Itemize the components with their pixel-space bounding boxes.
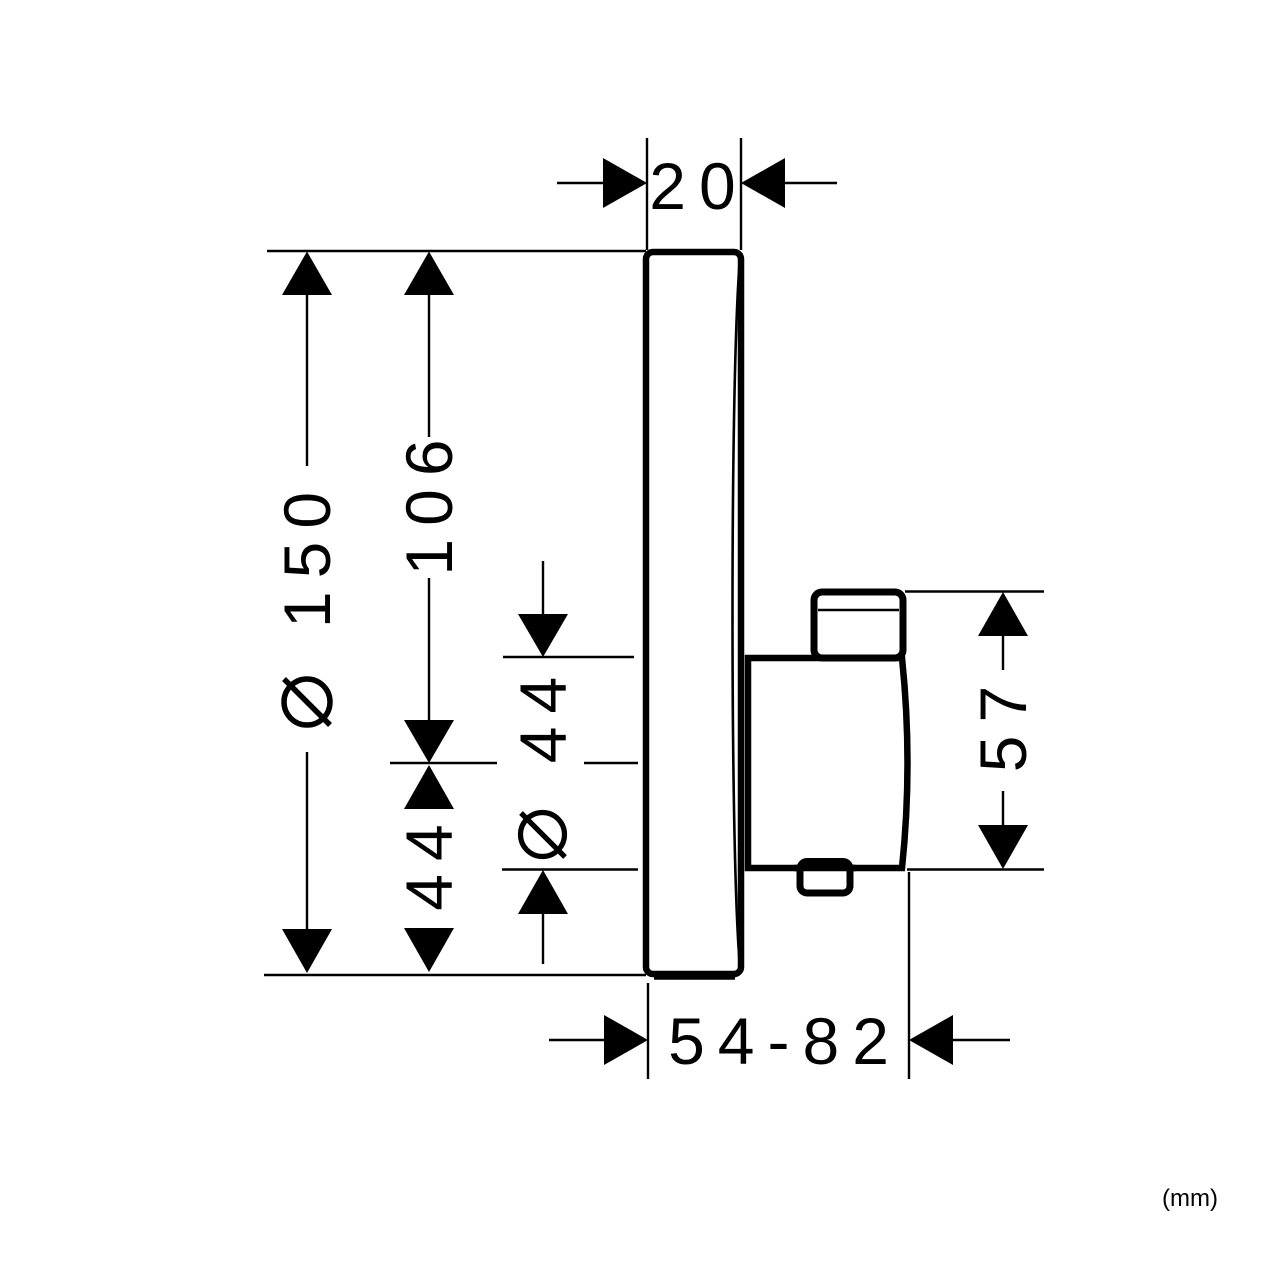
svg-text:54-82: 54-82	[668, 1004, 902, 1078]
dim 106: line x=429	[404, 252, 454, 296]
dim 57: x=1003	[905, 590, 1044, 592]
svg-text:20: 20	[649, 149, 748, 223]
faceplate inner right contour line	[733, 258, 741, 967]
knob top step	[814, 592, 903, 658]
dim 150: line x=307	[282, 252, 332, 296]
knob bottom tab	[800, 862, 850, 894]
knob body	[748, 658, 908, 868]
dim 20: arrows	[603, 158, 647, 208]
svg-text:44: 44	[506, 664, 580, 763]
svg-text:57: 57	[966, 673, 1040, 772]
faceplate outer rect	[646, 252, 741, 974]
center tick y=763	[390, 762, 497, 764]
dim 150: diameter symbol	[284, 679, 330, 725]
faceplate bottom inner thickening	[654, 975, 735, 980]
top extension line (plate top, y=251)	[267, 250, 646, 252]
dim 20: extension lines	[646, 138, 648, 250]
bottom extension line (plate bottom, y=975)	[264, 974, 646, 976]
dim Ø44: x=543	[542, 561, 544, 617]
svg-text:(mm): (mm)	[1162, 1185, 1218, 1212]
dim 54-82: line y=1040	[549, 1039, 605, 1041]
svg-text:106: 106	[392, 426, 466, 575]
dim 44 left: line x=429	[404, 765, 454, 809]
knob body bottom edge over tab	[794, 865, 856, 872]
dim 54-82: extension lines	[647, 983, 649, 1079]
dim 20: dimension line tails	[557, 182, 604, 184]
svg-text:150: 150	[270, 479, 344, 628]
svg-text:44: 44	[392, 811, 466, 910]
knob top step inner line	[818, 609, 899, 611]
